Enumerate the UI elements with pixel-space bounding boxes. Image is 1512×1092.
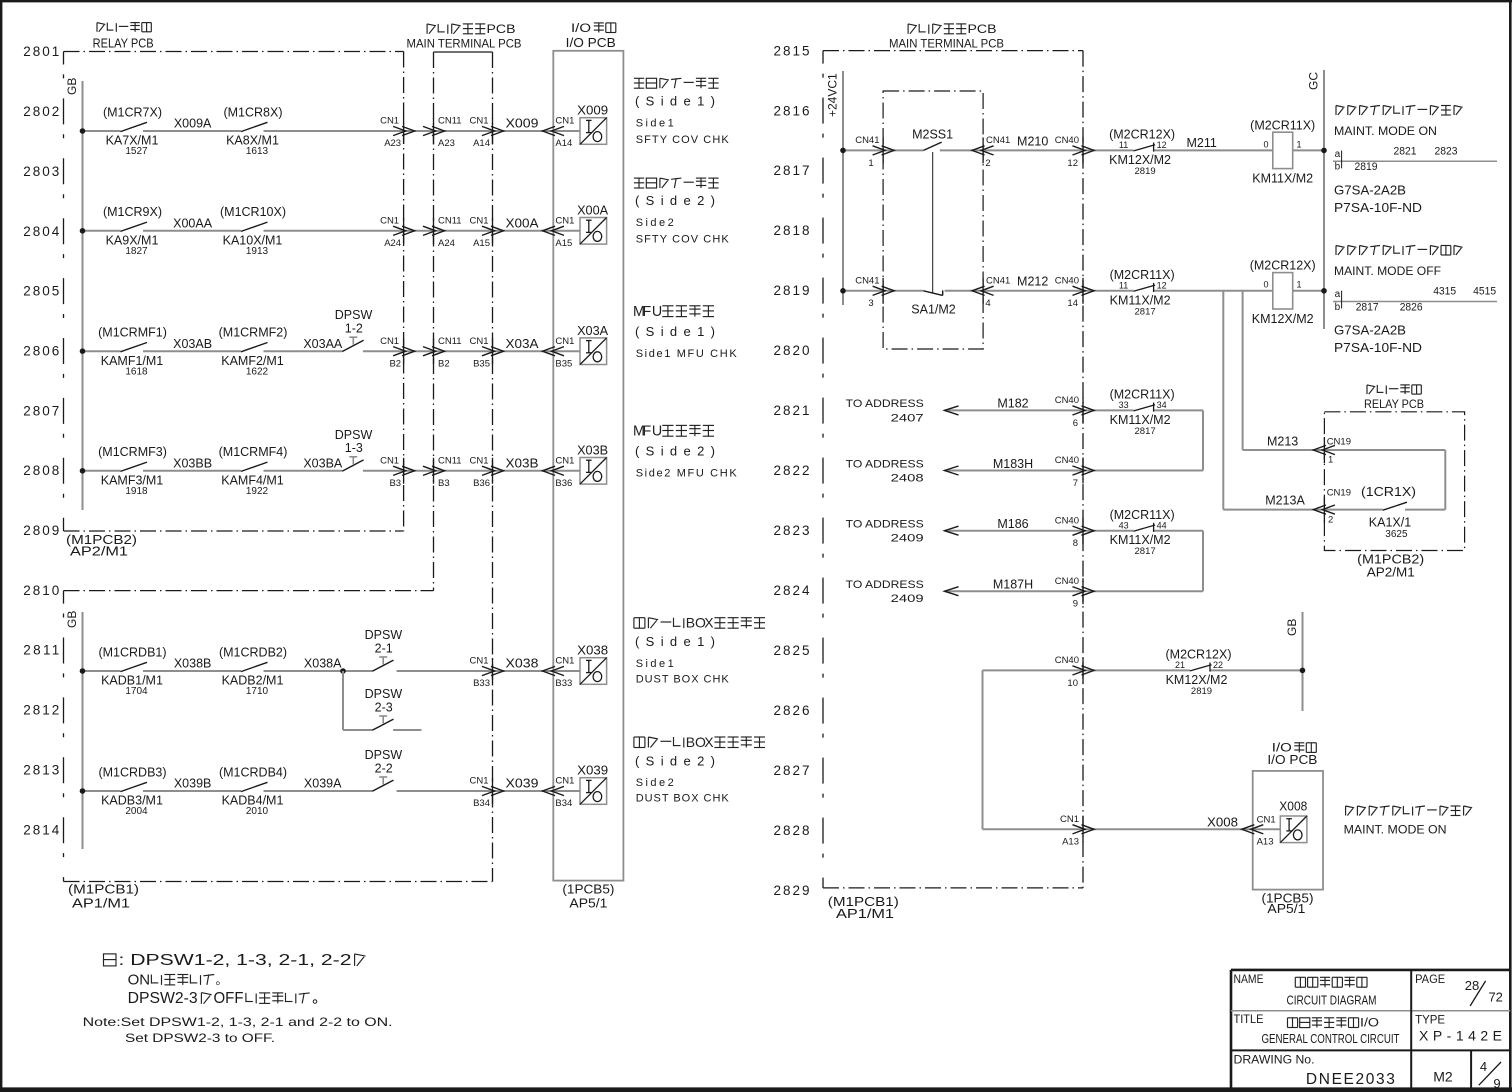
svg-text:SFTY COV CHK: SFTY COV CHK [636,134,730,146]
svg-text:TO ADDRESS: TO ADDRESS [846,579,924,591]
svg-text:14: 14 [1067,298,1078,309]
svg-text:7: 7 [1073,478,1078,489]
svg-text:DUST BOX CHK: DUST BOX CHK [636,793,730,805]
svg-text:10: 10 [1067,678,1078,689]
svg-text:X038: X038 [506,657,539,671]
svg-text:2817: 2817 [1135,306,1156,317]
svg-text:2812: 2812 [23,703,59,718]
svg-text:DUST BOX CHK: DUST BOX CHK [636,674,730,686]
svg-text:B35: B35 [555,358,572,369]
svg-text:2: 2 [985,158,990,169]
svg-text:0: 0 [1263,139,1268,149]
svg-text:X03A: X03A [577,324,609,338]
svg-text:F: F [643,423,652,439]
svg-text:AP5/1: AP5/1 [1267,902,1305,916]
svg-text:2817: 2817 [1356,301,1379,313]
svg-text:2828: 2828 [774,823,810,838]
svg-text:X008: X008 [1207,815,1238,829]
svg-text:TO ADDRESS: TO ADDRESS [846,519,924,531]
svg-text:M186: M186 [997,517,1028,531]
svg-text:KM11X/M2: KM11X/M2 [1110,533,1171,547]
svg-text:B36: B36 [473,478,490,489]
svg-text:RELAY PCB: RELAY PCB [93,36,154,50]
svg-text:2827: 2827 [774,763,810,778]
svg-text:CN19: CN19 [1327,487,1351,498]
svg-text:(M1CRMF1): (M1CRMF1) [98,326,167,340]
svg-text:2-2: 2-2 [375,761,393,775]
svg-text:X009A: X009A [174,117,212,131]
svg-text:B35: B35 [473,358,490,369]
svg-text:F: F [643,304,652,320]
svg-text:X039A: X039A [304,777,342,791]
svg-text:(Side1): (Side1) [635,634,715,649]
svg-text:X03BA: X03BA [303,457,343,471]
svg-text:2817: 2817 [774,163,810,178]
svg-text:(Side2): (Side2) [635,443,715,458]
svg-text:2806: 2806 [23,343,59,358]
svg-text:CN1: CN1 [1060,814,1079,825]
svg-text:2829: 2829 [774,883,810,898]
svg-text:GB: GB [65,78,79,95]
svg-text:U: U [652,423,662,439]
svg-text:(M1CRMF2): (M1CRMF2) [219,326,288,340]
svg-text:1827: 1827 [125,246,148,257]
svg-text:2815: 2815 [774,43,810,58]
svg-text:GB: GB [1285,619,1299,636]
svg-text:2820: 2820 [774,343,810,358]
svg-text:2801: 2801 [23,44,59,59]
svg-text:4: 4 [1480,1059,1487,1074]
svg-text:(M1CRMF4): (M1CRMF4) [219,445,288,459]
svg-text:X03B: X03B [577,444,608,458]
svg-text:4315: 4315 [1433,286,1456,298]
svg-text:X008: X008 [1279,799,1307,813]
svg-text:CN11: CN11 [438,456,462,467]
svg-text:KA1X/1: KA1X/1 [1369,516,1411,530]
svg-text:4515: 4515 [1473,286,1496,298]
svg-text:RELAY PCB: RELAY PCB [1364,397,1424,411]
svg-text:9: 9 [1073,599,1078,610]
svg-text:SA1/M2: SA1/M2 [911,303,956,317]
svg-text:B3: B3 [438,478,450,489]
svg-text:CIRCUIT DIAGRAM: CIRCUIT DIAGRAM [1287,993,1377,1008]
svg-text:A15: A15 [555,238,572,249]
svg-text:DPSW: DPSW [365,628,403,642]
svg-text:GC: GC [1307,72,1321,90]
svg-text:CN1: CN1 [555,656,574,667]
svg-text:B34: B34 [555,798,572,809]
svg-text:Side2: Side2 [636,777,674,789]
svg-text:2-1: 2-1 [375,641,393,655]
svg-text:3625: 3625 [1385,529,1408,540]
svg-text:(M1CR8X): (M1CR8X) [223,105,282,119]
svg-text:2010: 2010 [246,806,269,817]
svg-text:A14: A14 [555,138,572,149]
svg-text:(M2CR12X): (M2CR12X) [1109,128,1175,142]
svg-text:G7SA-2A2B: G7SA-2A2B [1334,184,1406,198]
svg-text:KM11X/M2: KM11X/M2 [1252,172,1313,186]
svg-text:AP5/1: AP5/1 [569,896,607,910]
svg-text:1710: 1710 [246,686,269,697]
svg-text:1: 1 [1296,139,1301,149]
svg-text:KM12X/M2: KM12X/M2 [1109,153,1171,167]
svg-text:2821: 2821 [774,403,810,418]
svg-text:MAINT. MODE OFF: MAINT. MODE OFF [1334,264,1441,278]
svg-text:DPSW: DPSW [335,308,373,322]
svg-text:2: 2 [1328,514,1333,525]
svg-text:OFF: OFF [214,990,244,1007]
svg-text:2826: 2826 [774,703,810,718]
svg-text:TO ADDRESS: TO ADDRESS [846,458,924,470]
svg-text:A14: A14 [473,138,490,149]
svg-text:1918: 1918 [125,486,148,497]
svg-text:B33: B33 [555,678,572,689]
svg-text:(1PCB5): (1PCB5) [562,882,614,896]
svg-text:b: b [1335,302,1341,313]
svg-text:P7SA-10F-ND: P7SA-10F-ND [1334,201,1422,215]
svg-text:CN1: CN1 [555,116,574,127]
svg-text:CN40: CN40 [1055,576,1079,587]
svg-text:CN40: CN40 [1055,276,1079,287]
svg-text:M183H: M183H [993,457,1033,471]
svg-text:CN40: CN40 [1055,515,1079,526]
svg-text:CN1: CN1 [380,456,399,467]
svg-text:DRAWING No.: DRAWING No. [1234,1054,1315,1066]
svg-text:1527: 1527 [125,146,148,157]
svg-text:2819: 2819 [1191,686,1212,697]
svg-text:+24VC1: +24VC1 [826,73,840,117]
svg-text:M2: M2 [1433,1069,1453,1085]
svg-text:CN40: CN40 [1055,135,1079,146]
svg-text:2816: 2816 [774,103,810,118]
svg-text:(Side1): (Side1) [635,93,715,108]
svg-text:I/O PCB: I/O PCB [566,36,616,50]
svg-text:MAIN TERMINAL PCB: MAIN TERMINAL PCB [889,37,1004,51]
svg-text:DPSW: DPSW [365,748,403,762]
svg-text:MAINT. MODE ON: MAINT. MODE ON [1334,124,1437,138]
svg-text:2409: 2409 [891,593,924,605]
svg-text:a: a [1335,149,1341,160]
svg-text:B2: B2 [389,358,401,369]
svg-text:CN40: CN40 [1055,455,1079,466]
svg-text:2823: 2823 [1435,145,1458,157]
svg-text:PCB: PCB [487,22,516,36]
svg-text:CN1: CN1 [555,216,574,227]
svg-text:2814: 2814 [23,822,59,837]
svg-text:(M2CR11X): (M2CR11X) [1250,118,1315,132]
svg-text:AP2/M1: AP2/M1 [1367,565,1415,579]
svg-text:AP1/M1: AP1/M1 [836,907,894,921]
svg-text:TYPE: TYPE [1415,1015,1445,1027]
svg-text:1: 1 [868,158,873,169]
svg-text:X: X [704,734,714,750]
svg-text:M213: M213 [1267,435,1298,449]
svg-text:4: 4 [985,298,990,309]
svg-text:DPSW: DPSW [335,428,373,442]
svg-text:CN11: CN11 [438,336,462,347]
svg-text:Set DPSW2-3 to OFF.: Set DPSW2-3 to OFF. [125,1031,275,1045]
svg-text:ON: ON [128,972,151,989]
svg-text:M210: M210 [1017,134,1048,148]
svg-text:CN40: CN40 [1055,395,1079,406]
svg-text:KM11X/M2: KM11X/M2 [1110,413,1171,427]
svg-text:A13: A13 [1062,837,1079,848]
svg-text:B34: B34 [473,798,490,809]
svg-text:2408: 2408 [891,473,924,485]
svg-text:。: 。 [216,973,228,987]
svg-text:CN1: CN1 [469,656,488,667]
svg-text:A24: A24 [438,238,455,249]
svg-text:CN11: CN11 [438,116,462,127]
svg-text:(M2CR12X): (M2CR12X) [1250,259,1316,273]
svg-text:(M2CR11X): (M2CR11X) [1110,268,1175,282]
svg-text:X038: X038 [577,644,608,658]
svg-text:DPSW2-3: DPSW2-3 [128,990,198,1007]
svg-text:2409: 2409 [891,533,924,545]
svg-text:X00A: X00A [506,216,540,230]
svg-text:2808: 2808 [23,463,59,478]
svg-text:X03A: X03A [506,337,540,351]
svg-text:6: 6 [1073,418,1078,429]
svg-text:U: U [652,304,662,320]
svg-text:X009: X009 [577,104,608,118]
svg-text:2825: 2825 [774,643,810,658]
svg-text:2823: 2823 [774,523,810,538]
svg-text:A13: A13 [1257,837,1274,848]
svg-text:PAGE: PAGE [1415,974,1445,986]
svg-text:12: 12 [1067,158,1078,169]
svg-text:CN40: CN40 [1055,655,1079,666]
svg-text:M211: M211 [1187,136,1217,150]
svg-text:(M1CRDB3): (M1CRDB3) [98,765,166,779]
svg-text:CN1: CN1 [555,776,574,787]
svg-text:1-3: 1-3 [345,441,363,455]
svg-text:(Side1): (Side1) [635,324,715,339]
svg-text:3: 3 [868,298,873,309]
svg-text:CN1: CN1 [555,456,574,467]
svg-text:B2: B2 [438,358,450,369]
svg-text:B: B [686,734,695,750]
svg-text:28: 28 [1465,978,1479,993]
svg-text:X03AB: X03AB [173,337,212,351]
svg-text:I/O: I/O [1360,1016,1379,1030]
svg-text:A15: A15 [473,238,490,249]
svg-text:CN1: CN1 [380,216,399,227]
svg-text:2-3: 2-3 [375,700,393,714]
svg-text:CN41: CN41 [986,276,1010,287]
svg-text:CN1: CN1 [380,336,399,347]
svg-text:CN41: CN41 [855,135,879,146]
svg-text:X00A: X00A [577,204,609,218]
svg-text:2821: 2821 [1394,145,1417,157]
svg-text:44: 44 [1157,521,1167,531]
svg-text:G7SA-2A2B: G7SA-2A2B [1334,324,1406,338]
svg-text:CN1: CN1 [469,776,488,787]
svg-text:Side1: Side1 [636,117,674,129]
svg-text:CN1: CN1 [469,336,488,347]
svg-text:(M1CR7X): (M1CR7X) [103,105,162,119]
svg-text:I/O PCB: I/O PCB [1267,753,1317,767]
svg-text:CN1: CN1 [469,216,488,227]
svg-text:X039: X039 [577,764,608,778]
svg-text:PCB: PCB [968,22,997,36]
svg-text:1-2: 1-2 [345,322,363,336]
svg-text:2819: 2819 [1135,166,1156,177]
svg-text:X009: X009 [506,117,539,131]
svg-text:2807: 2807 [23,403,59,418]
svg-text:2802: 2802 [23,104,59,119]
svg-text:2803: 2803 [23,164,59,179]
svg-text:X03BB: X03BB [173,457,212,471]
svg-text:2819: 2819 [1355,161,1378,173]
svg-text:A24: A24 [384,238,401,249]
svg-text:CN19: CN19 [1327,437,1351,448]
svg-text:(M2CR11X): (M2CR11X) [1110,508,1175,522]
svg-text:DPSW: DPSW [365,687,403,701]
svg-text:M2SS1: M2SS1 [912,128,953,142]
svg-text:GENERAL CONTROL CIRCUIT: GENERAL CONTROL CIRCUIT [1262,1032,1400,1046]
svg-text:Note:Set DPSW1-2, 1-3, 2-1 and: Note:Set DPSW1-2, 1-3, 2-1 and 2-2 to ON… [83,1015,393,1029]
svg-text:B36: B36 [555,478,572,489]
svg-text:A23: A23 [438,138,455,149]
svg-text:(M1CR9X): (M1CR9X) [103,205,162,219]
svg-text:X03AA: X03AA [303,337,343,351]
svg-text:GB: GB [65,611,79,628]
svg-text:1922: 1922 [246,486,269,497]
svg-text:B33: B33 [473,678,490,689]
svg-text:AP1/M1: AP1/M1 [72,897,130,911]
svg-text:P7SA-10F-ND: P7SA-10F-ND [1334,341,1422,355]
svg-text:(1CR1X): (1CR1X) [1361,485,1416,499]
svg-text:X039: X039 [506,777,539,791]
svg-text:DNEE2033: DNEE2033 [1306,1071,1395,1088]
svg-text:M187H: M187H [993,578,1033,592]
svg-text:CN1: CN1 [1257,815,1276,826]
svg-text:Side1: Side1 [636,658,674,670]
svg-text:I/O: I/O [571,21,591,35]
svg-text:X00AA: X00AA [173,217,213,231]
svg-text:Side2: Side2 [636,217,674,229]
svg-text:(M1PCB1): (M1PCB1) [68,883,139,897]
svg-text:2804: 2804 [23,224,59,239]
svg-text:(Side2): (Side2) [635,193,715,208]
svg-text:2822: 2822 [774,463,810,478]
svg-text:M182: M182 [997,397,1028,411]
svg-text:NAME: NAME [1234,974,1264,986]
svg-text:AP2/M1: AP2/M1 [70,545,128,559]
svg-text:(M1CRDB1): (M1CRDB1) [98,645,166,659]
svg-text:2817: 2817 [1135,426,1156,437]
svg-text:(M1CRMF3): (M1CRMF3) [98,445,167,459]
svg-text:KM12X/M2: KM12X/M2 [1252,312,1314,326]
svg-text:A23: A23 [384,138,401,149]
svg-text:CN41: CN41 [986,135,1010,146]
svg-text:2813: 2813 [23,762,59,777]
svg-text:TO ADDRESS: TO ADDRESS [846,398,924,410]
svg-text:(M2CR11X): (M2CR11X) [1110,388,1175,402]
svg-text:CN11: CN11 [438,216,462,227]
svg-text:SFTY COV CHK: SFTY COV CHK [636,234,730,246]
svg-text:X03B: X03B [506,456,539,470]
svg-text:B3: B3 [389,478,401,489]
svg-text:X039B: X039B [174,777,212,791]
svg-text:KM11X/M2: KM11X/M2 [1110,293,1171,307]
svg-text:1: 1 [1328,454,1333,465]
svg-text:M213A: M213A [1265,493,1305,507]
svg-text:(M1CRDB2): (M1CRDB2) [219,645,287,659]
svg-text:X038A: X038A [304,657,342,671]
svg-text:0: 0 [1263,280,1268,290]
svg-text:MAINT. MODE ON: MAINT. MODE ON [1344,823,1447,837]
svg-text:2809: 2809 [23,523,59,538]
svg-text:CN1: CN1 [380,116,399,127]
svg-text:CN1: CN1 [469,456,488,467]
svg-text:MAIN TERMINAL PCB: MAIN TERMINAL PCB [407,37,522,51]
svg-text:b: b [1335,162,1341,173]
svg-text:2805: 2805 [23,284,59,299]
svg-text:1622: 1622 [246,366,269,377]
svg-text:CN1: CN1 [469,116,488,127]
svg-text:9: 9 [1493,1076,1500,1091]
svg-text:X038B: X038B [174,657,212,671]
svg-text:72: 72 [1488,990,1502,1005]
svg-text:2810: 2810 [23,583,59,598]
svg-text:(M2CR12X): (M2CR12X) [1166,648,1232,662]
svg-text:X: X [704,615,714,631]
svg-text:M212: M212 [1017,275,1048,289]
svg-text:B: B [686,615,695,631]
svg-text:(M1CRDB4): (M1CRDB4) [219,765,287,779]
svg-text:43: 43 [1119,521,1129,531]
svg-text:2826: 2826 [1400,301,1423,313]
svg-text:: DPSW1-2, 1-3, 2-1, 2-2: : DPSW1-2, 1-3, 2-1, 2-2 [119,952,352,969]
svg-text:2004: 2004 [125,806,148,817]
svg-text:CN1: CN1 [555,336,574,347]
svg-text:1: 1 [1296,280,1301,290]
svg-text:KM12X/M2: KM12X/M2 [1166,673,1228,687]
svg-text:a: a [1335,289,1341,300]
svg-text:1618: 1618 [125,366,148,377]
svg-text:2407: 2407 [891,412,924,424]
svg-text:2818: 2818 [774,223,810,238]
svg-text:(M1CR10X): (M1CR10X) [220,205,286,219]
svg-text:1613: 1613 [246,146,269,157]
svg-text:2817: 2817 [1135,546,1156,557]
svg-text:TITLE: TITLE [1234,1014,1264,1026]
svg-text:1704: 1704 [125,686,148,697]
svg-text:8: 8 [1073,538,1078,549]
svg-text:CN41: CN41 [855,276,879,287]
svg-text:1913: 1913 [246,246,269,257]
svg-text:2819: 2819 [774,283,810,298]
svg-text:(Side2): (Side2) [635,753,715,768]
svg-text:2824: 2824 [774,583,810,598]
